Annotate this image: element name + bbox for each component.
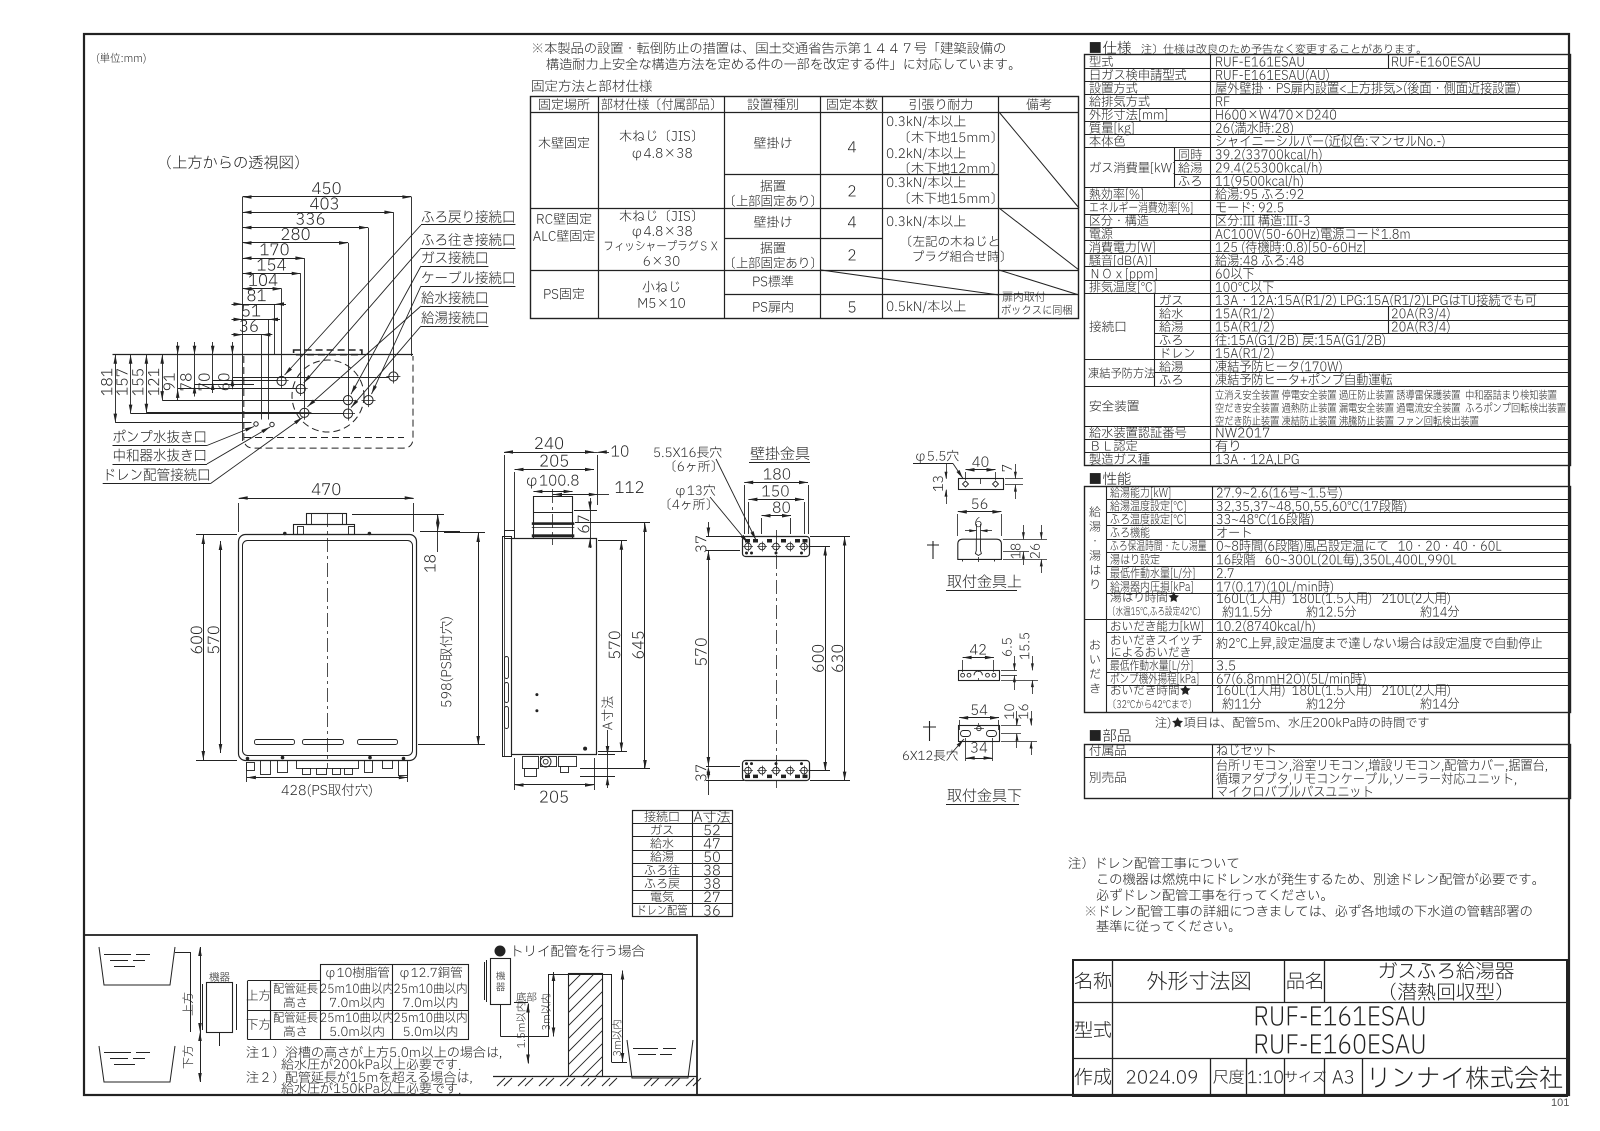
side center line xyxy=(552,489,554,545)
bracket center line xyxy=(776,530,778,788)
dim 42 (detail-l) xyxy=(963,657,994,659)
fixing diag 備考1 xyxy=(999,112,1079,208)
parts title xyxy=(1090,729,1131,742)
left vertical dimension lines xyxy=(115,355,117,423)
dim 15.5 (detail-l) xyxy=(1001,680,1038,682)
port label ふろ戻り接続口 xyxy=(422,210,514,223)
dim 1.5m以内 xyxy=(528,1004,530,1064)
dim 7 (detail-u) xyxy=(1005,478,1023,480)
dim A寸法 (side) xyxy=(598,754,615,756)
dim 18 (detail-u) xyxy=(1003,551,1029,553)
dim 54 (detail-l) xyxy=(959,717,999,719)
perf table grid xyxy=(1085,487,1571,713)
dim 150 (bracket) xyxy=(748,499,804,501)
dim 112 (side) xyxy=(553,494,598,496)
dim 600 (front) xyxy=(196,534,237,536)
dim 67 (side) xyxy=(574,510,597,512)
dim 428 PS (front) xyxy=(246,762,248,782)
label ドレン配管接続口 xyxy=(107,468,209,481)
title block text xyxy=(1075,972,1111,989)
dim 645 (side) xyxy=(575,522,650,524)
dim 34 (detail-l) xyxy=(965,738,967,761)
dimension 36 (top view) xyxy=(243,334,262,336)
dimension 450 (top view) xyxy=(243,196,412,198)
label φ5.5穴 xyxy=(916,450,958,463)
connection ports (top view) xyxy=(277,376,286,385)
torii unit 機器 xyxy=(491,959,511,1005)
mount detail lower title xyxy=(948,788,1022,802)
piping box border xyxy=(84,935,697,1095)
dimension 51 (top view) xyxy=(243,319,270,321)
spec table values xyxy=(1216,57,1303,67)
label 6X12長穴 xyxy=(903,750,958,761)
dim 10 (detail-l) xyxy=(1001,725,1021,727)
front louvers xyxy=(255,740,295,745)
fixing diag PS標準備考 xyxy=(999,270,1079,295)
fan circle dashed xyxy=(292,360,364,432)
front body outline xyxy=(239,535,417,761)
label ポンプ水抜き口 xyxy=(113,430,205,443)
upper mount bracket strip xyxy=(959,479,1004,490)
dimension 81 (top view) xyxy=(243,304,276,306)
front center line xyxy=(327,513,329,768)
dim 570 (bracket) xyxy=(708,551,710,766)
datum mark lower xyxy=(923,721,936,741)
right bathtub xyxy=(627,1040,693,1078)
dim 570 (side) xyxy=(598,540,627,542)
fixing row RC/ALC xyxy=(537,213,591,225)
dim 600 (bracket) xyxy=(810,546,830,548)
dim 470 (front) xyxy=(239,498,414,500)
torii pipe route xyxy=(500,1004,502,1037)
left unit 機器 xyxy=(207,983,233,1033)
dimension 170 (top view) xyxy=(243,258,305,260)
dim 205 top (side) xyxy=(515,469,595,471)
perf note xyxy=(1156,717,1429,729)
lower mount strip 2 xyxy=(959,726,1000,742)
perf group labels xyxy=(1089,506,1100,517)
dim 180 (bracket) xyxy=(744,482,808,484)
lower mount strip 1 xyxy=(959,671,1000,681)
side dots xyxy=(535,693,538,696)
A-dimension table xyxy=(633,811,733,917)
dim 26 (detail-u) xyxy=(1003,539,1047,541)
upper bathtub xyxy=(99,947,175,985)
unit note xyxy=(97,53,146,64)
dim 6 (detail-u) xyxy=(976,524,978,539)
dimension 403 (top view) xyxy=(243,212,394,214)
fixing row PS固定 xyxy=(544,288,584,300)
dim 3m以内 left xyxy=(553,972,555,1037)
wall bracket title xyxy=(751,446,810,460)
dim 40 (detail-u) xyxy=(966,469,996,471)
front bottom pipe stubs xyxy=(247,763,255,771)
lower bathtub xyxy=(99,1046,175,1082)
installation note line2 xyxy=(546,58,1012,70)
dim 13 (detail-u) xyxy=(946,464,948,479)
dim 10 (side) xyxy=(597,455,599,505)
top view title xyxy=(167,155,298,169)
mount detail upper title xyxy=(948,574,1022,588)
svg-text:101: 101 xyxy=(1551,1097,1569,1109)
dim 16 (detail-l) xyxy=(1001,741,1037,743)
label 底部 xyxy=(516,992,536,1002)
dim 80 (bracket) xyxy=(762,515,792,517)
dim 240 (side) xyxy=(504,452,594,454)
dimension 280 (top view) xyxy=(243,242,349,244)
fixing diag PS標準 xyxy=(821,270,999,295)
port label ケーブル接続口 xyxy=(422,271,514,284)
dim phi100.8 (side) xyxy=(527,475,578,489)
dim 6.5 (detail-l) xyxy=(1001,670,1017,672)
front bottom screws xyxy=(246,757,250,761)
left vertical dimension labels xyxy=(101,369,112,396)
flue outline dashed (top view) xyxy=(294,350,362,355)
port label ガス接続口 xyxy=(422,251,486,264)
fixing table title xyxy=(532,80,652,92)
piping limit table xyxy=(247,981,249,1040)
front top screws xyxy=(283,532,287,536)
dimension 336 (top view) xyxy=(243,227,369,229)
dim 56 (detail-u) xyxy=(958,511,1002,513)
lower wall bracket plate xyxy=(743,761,810,781)
fixing diag 備考2 xyxy=(999,208,1079,270)
dim 上方 xyxy=(200,947,202,1032)
spec table grid xyxy=(1085,55,1571,466)
side bottom pipe stubs xyxy=(523,757,539,769)
dim 598 PS (front) xyxy=(478,533,480,745)
dimension 104 (top view) xyxy=(243,288,282,290)
keyhole mount bracket xyxy=(958,539,1002,559)
dim 37 upper (bracket) xyxy=(706,536,744,538)
parts table grid xyxy=(1085,745,1571,799)
ground line xyxy=(493,1076,697,1078)
port label 給水接続口 xyxy=(421,291,486,304)
perf title xyxy=(1090,472,1131,485)
perf values xyxy=(1217,487,1342,499)
side wall-plate slots xyxy=(505,657,509,679)
fixing table header xyxy=(539,98,589,110)
piping notes xyxy=(247,1046,502,1059)
side flue xyxy=(533,496,535,539)
fixing table grid xyxy=(531,97,1079,319)
top view extension lines xyxy=(242,197,244,441)
drain dots (top view) xyxy=(254,422,258,426)
port label 給湯接続口 xyxy=(421,311,486,324)
datum mark upper xyxy=(927,541,939,559)
unit outline dashed (top view) xyxy=(244,356,413,448)
spec table labels xyxy=(1090,56,1113,67)
side body outline xyxy=(512,539,597,755)
title block grid xyxy=(1073,960,1567,1096)
installation note line1 xyxy=(533,42,1005,54)
label 5.5X16長穴 xyxy=(654,446,722,457)
dim 570 (front) xyxy=(220,541,222,753)
piping section title xyxy=(495,946,506,957)
drain piping note xyxy=(1069,857,1239,869)
dim 18 (front) xyxy=(352,514,444,516)
dim 37 lower (bracket) xyxy=(706,766,740,768)
dim 205 bottom (side) xyxy=(514,758,516,790)
dim 630 (bracket) xyxy=(810,536,850,538)
parts table text xyxy=(1089,744,1125,756)
dim 3m以内 right xyxy=(622,971,624,1063)
spec title xyxy=(1090,41,1131,54)
perf row labels xyxy=(1110,487,1170,499)
wall line (top view) xyxy=(113,354,414,356)
dim 下方 xyxy=(200,1032,202,1082)
front flue xyxy=(307,514,347,525)
dimension 154 (top view) xyxy=(243,273,301,275)
upper wall bracket plate xyxy=(743,537,810,557)
label 中和器水抜き口 xyxy=(114,449,205,462)
port label ふろ往き接続口 xyxy=(422,233,514,246)
label φ13穴 xyxy=(676,484,715,497)
fixing row 木壁固定 xyxy=(539,137,590,149)
